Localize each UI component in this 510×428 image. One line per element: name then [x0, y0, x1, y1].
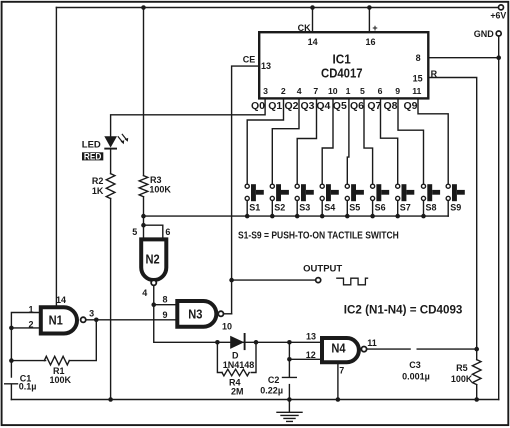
svg-text:Q6: Q6: [350, 100, 364, 112]
wire N2 input bracket: [144, 225, 163, 239]
label C2 value: [260, 375, 283, 396]
wire R4 right lead: [251, 342, 256, 372]
wire Q3 to S3: [297, 99, 316, 185]
svg-text:14: 14: [308, 37, 318, 47]
Q output labels: [251, 100, 418, 112]
svg-text:C3: C3: [409, 360, 421, 370]
svg-text:IC1: IC1: [333, 53, 351, 67]
svg-text:100K: 100K: [149, 185, 171, 195]
wire R5 bottom lead: [476, 385, 478, 400]
svg-text:6: 6: [378, 86, 383, 96]
switch S4: [320, 184, 324, 188]
svg-text:4: 4: [142, 288, 147, 298]
node R1/C1: [9, 358, 14, 363]
wire N4 pin7: [337, 364, 339, 399]
NAND gate N4 output bubble: [361, 347, 366, 352]
switch S7: [396, 184, 400, 188]
wire R4 left lead: [217, 342, 222, 372]
svg-text:14: 14: [56, 295, 66, 305]
wire +6V top rail: [56, 7, 498, 9]
node CK rail: [310, 5, 315, 10]
svg-text:Q2: Q2: [284, 100, 298, 112]
wire N1 pin1: [11, 313, 38, 378]
wire N4 pin12: [289, 358, 322, 360]
terminal OUTPUT: [316, 278, 321, 283]
node S6 rail: [370, 214, 375, 219]
NAND gate N2 body (vertical): [141, 239, 166, 280]
svg-text:+: +: [372, 23, 377, 33]
node N2 out / N3 pin8: [151, 302, 156, 307]
wire Q4 to S4: [322, 99, 333, 185]
svg-text:S4: S4: [324, 202, 335, 212]
svg-text:2M: 2M: [231, 387, 244, 397]
node diode anode: [215, 340, 220, 345]
wire Q7 to S7: [381, 99, 398, 185]
wire R3 bottom lead: [143, 197, 145, 225]
node S5 rail: [345, 214, 350, 219]
wire R1 feedback right lead: [69, 320, 96, 361]
label N1 pins: [28, 295, 94, 330]
node C2 top: [287, 340, 292, 345]
capacitor C3 right lead to R5 node: [417, 348, 477, 350]
label C1 value: [19, 374, 37, 392]
svg-text:R2: R2: [92, 176, 104, 186]
svg-text:R5: R5: [456, 363, 468, 373]
svg-text:Q4: Q4: [316, 100, 330, 112]
svg-text:S1-S9 = PUSH-TO-ON TACTILE SWI: S1-S9 = PUSH-TO-ON TACTILE SWITCH: [238, 231, 399, 242]
svg-text:GND: GND: [474, 29, 495, 39]
svg-text:8: 8: [162, 294, 167, 304]
label N3 pins: [162, 294, 232, 331]
svg-text:1K: 1K: [92, 186, 104, 196]
NAND gate N3 body: [177, 301, 216, 327]
svg-text:Q0: Q0: [251, 100, 265, 112]
svg-text:Q3: Q3: [300, 100, 314, 112]
svg-text:9: 9: [395, 86, 400, 96]
svg-text:S3: S3: [299, 202, 310, 212]
ground symbol: [277, 400, 302, 422]
label N2 pins 5 6: [132, 227, 170, 298]
wire R2 bottom to ground rail: [110, 198, 112, 399]
LED D1: [104, 134, 128, 149]
svg-text:Q5: Q5: [333, 100, 347, 112]
wire N1 output to N3 pin9: [86, 319, 175, 321]
svg-text:S7: S7: [400, 202, 411, 212]
svg-text:8: 8: [416, 53, 421, 63]
wire S9 bottom: [447, 201, 449, 217]
node C3/R5/reset: [474, 347, 479, 352]
wire CK pin14: [312, 8, 314, 32]
switch S2: [270, 184, 274, 188]
node pin16 rail: [367, 5, 372, 10]
node S7 rail: [395, 214, 400, 219]
wire N2 output to N3 pin8: [154, 286, 176, 305]
wire S1 bottom: [246, 201, 248, 217]
wire switch common rail: [144, 215, 449, 217]
wire R3 top lead: [143, 8, 145, 176]
NAND gate N1 output bubble: [81, 317, 86, 322]
wire N1 pin14 vertical: [55, 8, 57, 306]
svg-text:S1: S1: [249, 202, 260, 212]
bottom pin number labels: [263, 86, 421, 96]
svg-text:0.22µ: 0.22µ: [260, 385, 283, 395]
svg-text:N1: N1: [49, 313, 63, 328]
svg-text:N2: N2: [146, 251, 160, 266]
svg-text:1: 1: [28, 304, 33, 314]
wire Q9 to S9: [418, 99, 448, 185]
NAND gate N4 body: [322, 338, 359, 362]
svg-text:S5: S5: [349, 202, 360, 212]
svg-text:+6V: +6V: [490, 11, 506, 21]
wire N3 output stub: [224, 313, 232, 315]
node N2 inputs: [141, 223, 146, 228]
svg-text:OUTPUT: OUTPUT: [303, 264, 342, 275]
switch S6: [371, 184, 375, 188]
terminal +6V: [499, 5, 504, 10]
wire S5 bottom: [346, 201, 348, 217]
switch S9: [446, 184, 450, 188]
switch S8: [421, 184, 425, 188]
node diode cathode: [254, 340, 259, 345]
NAND gate N3 output bubble: [218, 311, 223, 316]
svg-text:2: 2: [28, 320, 33, 330]
svg-text:9: 9: [162, 310, 167, 320]
resistor R4: [222, 369, 249, 376]
svg-text:4: 4: [297, 86, 302, 96]
IC IC1 CD4017 box: [259, 32, 428, 98]
RED label box: [82, 152, 103, 160]
svg-text:C2: C2: [268, 375, 280, 385]
svg-text:Q7: Q7: [367, 100, 381, 112]
svg-text:3: 3: [89, 309, 94, 319]
svg-text:S2: S2: [274, 202, 285, 212]
svg-text:5: 5: [132, 227, 137, 237]
svg-text:Q1: Q1: [268, 100, 282, 112]
wire Q0 to LED: [111, 99, 266, 137]
resistor R3: [139, 176, 148, 197]
wire R1 left lead: [11, 360, 45, 362]
capacitor C2 top lead: [283, 342, 297, 377]
node S2 rail: [270, 214, 275, 219]
node pin7 ground: [336, 397, 341, 402]
svg-text:N3: N3: [188, 307, 202, 322]
wire N1 pin2: [11, 327, 38, 329]
resistor R1: [44, 356, 69, 365]
wire R reset pin15: [429, 78, 477, 350]
svg-text:0.001µ: 0.001µ: [402, 371, 430, 381]
wire R5 top lead: [476, 349, 478, 360]
NAND gate N1 body: [41, 307, 77, 333]
wire Q6 to S6: [364, 99, 373, 185]
label R5 value: [451, 363, 473, 384]
wire S6 bottom: [372, 201, 374, 217]
svg-text:S9: S9: [450, 202, 461, 212]
svg-text:CK: CK: [298, 23, 311, 33]
label diode D 1N4148: [223, 351, 255, 397]
svg-text:LED: LED: [82, 139, 101, 150]
wire pin8 to GND: [429, 57, 499, 59]
svg-text:7: 7: [339, 365, 344, 375]
wire Q1 to S1: [247, 99, 283, 185]
node S3 rail: [295, 214, 300, 219]
wire pin16 plus: [368, 8, 370, 32]
node S8 rail: [421, 214, 426, 219]
svg-text:CD4017: CD4017: [321, 66, 363, 81]
terminal GND: [496, 31, 501, 36]
wire S3 bottom: [296, 201, 298, 217]
wire LED cathode to R2: [110, 149, 112, 173]
svg-text:11: 11: [367, 338, 377, 348]
svg-text:R: R: [431, 69, 438, 79]
label R1 value: [50, 366, 72, 385]
text labels: [243, 11, 507, 84]
wire S2 bottom: [271, 201, 273, 217]
svg-text:0.1µ: 0.1µ: [19, 382, 37, 392]
svg-text:Q8: Q8: [383, 100, 397, 112]
node pin8 GND: [496, 55, 501, 60]
output square wave glyph: [336, 278, 368, 285]
svg-text:100K: 100K: [50, 375, 72, 385]
svg-text:Q9: Q9: [403, 100, 417, 112]
svg-text:10: 10: [328, 86, 338, 96]
wire Q8 to S8: [398, 99, 424, 185]
svg-text:3: 3: [263, 86, 268, 96]
label R2 value: [92, 176, 104, 196]
wire S4 bottom: [321, 201, 323, 217]
svg-text:16: 16: [365, 37, 375, 47]
svg-text:R3: R3: [150, 175, 162, 185]
node C2 pin12: [287, 357, 292, 362]
svg-text:10: 10: [222, 322, 232, 332]
node R5 ground: [474, 397, 479, 402]
switch S5: [345, 184, 349, 188]
label R3 value: [149, 175, 171, 195]
label C3 value: [402, 360, 430, 382]
svg-text:1: 1: [346, 86, 351, 96]
svg-text:6: 6: [165, 227, 170, 237]
svg-text:12: 12: [306, 350, 316, 360]
node OUTPUT branch: [229, 278, 234, 283]
node N1 out feedback: [94, 318, 99, 323]
svg-text:IC2 (N1-N4) = CD4093: IC2 (N1-N4) = CD4093: [344, 303, 463, 317]
node R2 ground: [108, 397, 113, 402]
resistor R2: [106, 174, 115, 199]
node N1 in pin2: [9, 326, 14, 331]
svg-text:S6: S6: [375, 202, 386, 212]
svg-text:1N4148: 1N4148: [223, 360, 255, 370]
node C2 ground: [287, 397, 292, 402]
wire Q5 to S5: [347, 99, 349, 185]
svg-text:CE: CE: [243, 55, 256, 65]
svg-text:13: 13: [306, 331, 316, 341]
node R3 switch rail: [141, 214, 146, 219]
label N4 pins: [306, 331, 377, 375]
svg-text:N4: N4: [331, 341, 346, 356]
wire N3 node to diode and N4 pin13: [154, 305, 322, 343]
node S1 rail: [245, 214, 250, 219]
wire Q2 to S2: [272, 99, 299, 185]
wire N4 output to C3: [367, 348, 410, 350]
svg-text:11: 11: [412, 86, 421, 96]
svg-text:5: 5: [360, 86, 365, 96]
switches S1-S9: [245, 184, 465, 201]
svg-text:15: 15: [413, 74, 423, 84]
resistor R5: [472, 360, 481, 385]
svg-text:13: 13: [261, 61, 271, 71]
svg-text:100K: 100K: [451, 374, 473, 384]
capacitor C1: [5, 384, 18, 400]
wire ground bottom rail: [11, 399, 498, 401]
wire CE pin13 to N3 output vertical: [232, 66, 259, 314]
diode D 1N4148: [230, 333, 244, 350]
wire S8 bottom: [423, 201, 425, 217]
major components: [41, 5, 504, 362]
node S4 rail: [320, 214, 325, 219]
wire OUTPUT branch: [232, 279, 316, 281]
switch S1: [245, 184, 249, 188]
wire S7 bottom: [397, 201, 399, 217]
NAND gate N2 output bubble: [151, 280, 156, 285]
svg-text:7: 7: [313, 86, 318, 96]
wire GND vertical: [498, 36, 500, 399]
switch S3: [295, 184, 299, 188]
capacitor C2 bottom lead: [288, 385, 290, 400]
switch name labels S1-S9: [249, 202, 461, 212]
svg-text:S8: S8: [426, 202, 437, 212]
svg-text:RED: RED: [84, 152, 102, 162]
node R3/+6V: [141, 5, 146, 10]
svg-text:2: 2: [281, 86, 286, 96]
